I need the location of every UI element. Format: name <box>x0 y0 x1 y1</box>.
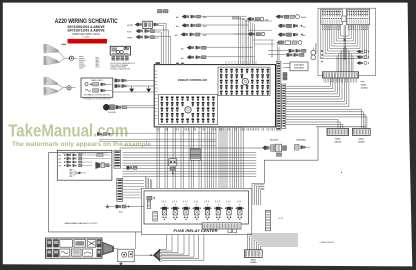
svg-text:AAAA: AAAA <box>359 138 365 141</box>
connector header block X2 <box>346 9 369 24</box>
wire labels column <box>79 57 86 68</box>
alternator connector <box>295 139 311 150</box>
svg-text:AAA AAA: AAA AAA <box>270 139 279 142</box>
svg-text:AAAA: AAAA <box>251 259 257 262</box>
connector plug P2 <box>67 86 76 90</box>
svg-text:AAAA: AAAA <box>361 84 367 87</box>
grid B center ring <box>185 107 191 113</box>
svg-text:HORN: HORN <box>127 25 133 27</box>
tail harness connector bar C1 <box>327 128 349 143</box>
svg-text:HYDRAULIC FILTER SWITCH: HYDRAULIC FILTER SWITCH <box>83 98 111 101</box>
svg-text:ENGINE: ENGINE <box>108 112 116 114</box>
striped splice block <box>190 149 200 161</box>
connector plug P1 <box>69 56 77 60</box>
connector tree harness W1 upper fan <box>44 44 70 65</box>
long feed wire <box>120 147 262 149</box>
switch row M3 <box>278 24 307 28</box>
svg-text:AAAAA: AAAAA <box>358 141 365 144</box>
harness fan stub dots <box>322 25 368 30</box>
svg-text:V-2000: V-2000 <box>83 36 91 38</box>
harness bundle right runs <box>286 78 367 128</box>
sensor row K5 <box>181 56 255 61</box>
fuse box inner left components <box>147 196 158 221</box>
svg-text:TEMP: TEMP <box>127 37 133 39</box>
tailgate row 1 <box>59 154 111 157</box>
bus drop bundle into fuse box <box>145 177 151 192</box>
ground G2 <box>146 86 151 92</box>
harness taper cone <box>102 242 118 256</box>
tailgate row 4 <box>59 164 93 167</box>
hydraulic filter switch box <box>81 78 113 97</box>
accessory pin strip <box>265 210 283 231</box>
top mini fuse pair <box>158 10 169 13</box>
controller connector grid A <box>220 69 269 96</box>
mainframe harness box <box>48 153 148 232</box>
svg-text:AAAAAAAA: AAAAAAAA <box>315 43 318 54</box>
sensor row K2 <box>176 24 249 29</box>
tailgate row 3 <box>59 161 93 164</box>
switch row M5 <box>278 33 307 37</box>
fan trunk wires <box>336 46 355 72</box>
sensor row K1 <box>176 15 247 19</box>
svg-text:BOBCAT CONTROLLER: BOBCAT CONTROLLER <box>178 78 207 82</box>
fuse legend strip <box>45 238 102 258</box>
switch row M2 <box>276 15 307 20</box>
sensor row K3 <box>175 33 251 38</box>
interlink connector <box>342 16 346 22</box>
engine fan nested elbows <box>161 235 204 261</box>
controller right connector strip CN1 <box>276 62 281 131</box>
svg-text:AAAA: AAAA <box>335 138 341 141</box>
svg-text:AAAA: AAAA <box>301 16 307 19</box>
tailgate mini fan <box>70 169 87 176</box>
svg-text:MAINFRAME HARNESS STUDIO: MAINFRAME HARNESS STUDIO <box>65 222 98 225</box>
fuel sender label box <box>283 62 308 71</box>
chassis ground row <box>106 205 145 214</box>
side plug symbols right <box>357 50 370 65</box>
harness fan nested wires <box>321 25 369 59</box>
rotated harness note <box>315 43 318 54</box>
svg-text:AAAAA: AAAAA <box>250 261 257 264</box>
svg-text:AAA AAAA: AAA AAAA <box>294 67 304 70</box>
svg-text:+12V: +12V <box>278 218 284 220</box>
svg-text:HYDRAULIC FILTER SWITCH: HYDRAULIC FILTER SWITCH <box>84 94 110 97</box>
connector pair J6 <box>97 132 217 135</box>
bulkhead strip V1 <box>114 150 121 168</box>
wire bus lower-left pair <box>100 139 217 141</box>
key switch box <box>118 232 148 263</box>
svg-text:AAAAA: AAAAA <box>361 87 368 90</box>
connector pair J5 <box>113 79 154 92</box>
controller connector grid A box <box>218 67 270 95</box>
fan center drop wires <box>343 25 346 60</box>
fuel pump motor symbol <box>311 48 316 60</box>
switch row M6 <box>277 41 302 45</box>
node speck <box>341 172 342 173</box>
controller left pin ticks <box>155 70 158 72</box>
ground junction box <box>110 46 130 55</box>
relay pair below box <box>228 226 237 233</box>
controller output wires <box>157 127 243 205</box>
svg-text:Printable Version Click Here: Printable Version Click Here <box>69 40 105 44</box>
svg-text:The watermark only appears on: The watermark only appears on the exampl… <box>12 141 151 148</box>
side marks left <box>320 50 324 62</box>
svg-text:AAAAAAA: AAAAAAA <box>296 139 306 142</box>
tailgate row 2 <box>59 157 111 160</box>
controller bottom pin labels <box>157 128 274 130</box>
rear connector label <box>361 82 369 90</box>
switch row M1 <box>232 17 269 21</box>
controller connector grid B <box>161 97 215 124</box>
fuel gauge row <box>127 29 168 33</box>
fuse relay center outer box <box>142 188 252 234</box>
svg-text:TakeManual.com: TakeManual.com <box>8 120 128 140</box>
bobcat controller box <box>154 65 275 127</box>
relay bank <box>160 201 243 220</box>
main rear connector bar <box>322 72 358 83</box>
ground G1 <box>129 86 134 92</box>
tailgate-headlights box <box>57 150 112 180</box>
wire bundle center descent <box>201 16 275 65</box>
key switch ground <box>120 262 122 263</box>
rear harness connector box outline <box>318 8 376 75</box>
temp gauge row <box>127 35 171 39</box>
main wire bus left-to-right <box>123 152 257 176</box>
wire label stack <box>96 58 100 68</box>
rear bundle elbows upper <box>252 183 264 205</box>
bottom harness connector bar <box>244 250 262 264</box>
tailgate lamp connector <box>95 162 112 169</box>
engine harness fan cone <box>148 249 161 262</box>
ground box notes <box>110 62 135 71</box>
controller top edge stubs <box>156 61 257 65</box>
sensor row K4 <box>181 46 253 51</box>
svg-text:(+) REAR ACCESSORY: (+) REAR ACCESSORY <box>320 241 335 244</box>
wires top-left to controller <box>161 23 171 64</box>
svg-text:AAAAA: AAAAA <box>334 141 341 144</box>
grid A center ring <box>242 78 248 84</box>
switch row M4 <box>234 32 265 36</box>
lamp module <box>169 159 177 176</box>
svg-text:AAA AAAA: AAA AAAA <box>294 63 304 66</box>
fuel sender connectors <box>268 49 306 57</box>
CN1 feeder stubs <box>271 40 279 62</box>
harness boundary wire <box>264 127 318 183</box>
fuel shutoff solenoid connectors <box>262 139 287 157</box>
tail harness connector bar C2 <box>352 128 370 143</box>
title block <box>55 18 118 38</box>
svg-text:GROUND LOCATION NOTED: GROUND LOCATION NOTED <box>110 68 130 71</box>
long feed wire upper <box>123 145 217 147</box>
rear feed elbows <box>248 234 299 250</box>
diode pack <box>283 73 287 81</box>
svg-text:FUEL: FUEL <box>127 31 133 33</box>
connector tree harness W2 lower fan <box>44 77 67 95</box>
dash mark <box>62 43 67 45</box>
svg-text:FUSE /RELAY CENTER: FUSE /RELAY CENTER <box>174 229 218 233</box>
bulkhead strip V2 <box>117 178 144 201</box>
svg-text:(PRINTED APRIL 2004): (PRINTED APRIL 2004) <box>72 32 100 36</box>
controller right connector strip CN2 <box>282 84 286 129</box>
ground box terminal table <box>112 57 129 60</box>
horn circuit row <box>127 21 166 28</box>
red printable-version banner <box>68 39 108 44</box>
tailgate feed connector <box>127 166 138 170</box>
fuse box bottom connector strip <box>202 223 241 229</box>
oil pressure sender connector <box>103 104 154 114</box>
fuse relay center box <box>144 191 249 224</box>
controller connector grid B box <box>158 95 217 125</box>
connector header block X1 <box>321 9 342 24</box>
svg-text:CAB/LIGHTS: CAB/LIGHTS <box>91 79 104 82</box>
